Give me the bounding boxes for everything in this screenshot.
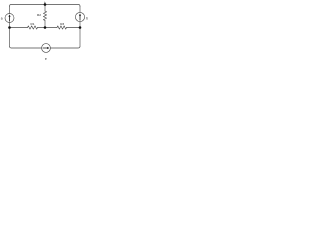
current source I2 bbox=[75, 12, 88, 21]
current source I1 bbox=[1, 14, 14, 23]
node b (top junction) bbox=[44, 1, 47, 6]
wire top rail bbox=[10, 5, 81, 7]
wire middle rail segment 3 bbox=[67, 27, 81, 29]
svg-text:e: e bbox=[45, 57, 47, 61]
wire bottom rail left bbox=[10, 46, 42, 48]
node junction middle-left bbox=[8, 26, 11, 29]
wire center branch lower bbox=[44, 21, 46, 28]
wire left branch upper bbox=[9, 6, 11, 13]
wire right branch upper bbox=[79, 6, 81, 12]
wire left branch lower bbox=[9, 23, 11, 47]
wire middle rail segment 2 bbox=[38, 27, 58, 29]
wire middle rail segment 1 bbox=[10, 27, 28, 29]
resistor R1 bbox=[28, 22, 38, 29]
wire center branch upper bbox=[44, 5, 46, 12]
svg-text:a: a bbox=[1, 16, 3, 20]
svg-text:R1: R1 bbox=[31, 22, 35, 26]
svg-text:R2: R2 bbox=[37, 13, 41, 17]
resistor R2 bbox=[37, 11, 47, 21]
resistor R3 bbox=[57, 22, 67, 29]
wire bottom rail right bbox=[50, 46, 80, 48]
wire right branch lower bbox=[79, 22, 81, 47]
svg-text:b: b bbox=[86, 16, 88, 20]
svg-text:R3: R3 bbox=[60, 22, 64, 26]
node junction middle-center bbox=[44, 26, 47, 29]
current source I3 bbox=[42, 44, 51, 61]
node junction middle-right bbox=[79, 26, 82, 29]
